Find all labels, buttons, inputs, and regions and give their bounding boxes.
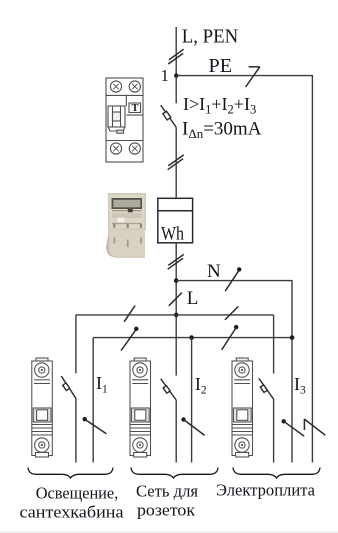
svg-text:сантехкабина: сантехкабина [20, 502, 125, 521]
label group 2 line 2 [137, 500, 196, 519]
double-slash mark below Wh [168, 254, 184, 269]
switch blade on N bus right [222, 325, 239, 350]
label group 1 line 1 [36, 483, 119, 502]
scan edge shadow bottom [0, 531, 338, 533]
wire L branch 2 lower [175, 400, 177, 463]
RCD device drawing U1 [106, 78, 143, 162]
switch blade on N wire [225, 267, 241, 291]
node 1 junction dot [174, 73, 178, 77]
svg-text:IΔn=30mA: IΔn=30mA [182, 118, 262, 141]
group brace 2 [131, 468, 218, 479]
electricity meter photo [106, 193, 146, 258]
svg-text:Электроплита: Электроплита [216, 481, 316, 500]
label IΔn=30mA [182, 118, 262, 141]
wire RCD to Wh meter [175, 127, 177, 198]
N distribution bus [93, 337, 292, 339]
label group 3 [216, 481, 316, 500]
L distribution bus [76, 314, 274, 316]
wire N branch right and down [176, 281, 292, 463]
energy meter symbol Wh [158, 198, 193, 243]
label Wh [161, 224, 184, 245]
svg-text:T: T [132, 103, 139, 114]
label 1 [161, 66, 170, 85]
group brace 3 [233, 468, 320, 479]
node label PE [209, 55, 233, 77]
double-slash 2-conductor mark on incoming wire [168, 49, 183, 64]
svg-text:L: L [187, 288, 199, 309]
svg-text:Освещение,: Освещение, [36, 483, 119, 502]
svg-text:PE: PE [209, 55, 233, 77]
wire L branch 3 lower [273, 399, 275, 462]
breaker device drawing 1 [32, 358, 53, 457]
svg-text:I2: I2 [195, 374, 207, 396]
PE conductor slash mark (top) [246, 67, 260, 87]
label I>I1+I2+I3 [183, 94, 256, 117]
wire N branch 1 [92, 338, 94, 463]
svg-text:розеток: розеток [137, 500, 196, 519]
wire L branch 1 lower [75, 398, 77, 462]
node dot N bus right end [290, 335, 295, 340]
breaker contact symbol QF4 [259, 378, 274, 399]
node N junction dot [174, 278, 179, 283]
node L junction dot [174, 313, 179, 318]
breaker contact symbol QF3 [161, 379, 177, 400]
wire L branch 1 upper [75, 315, 77, 373]
wire Wh to L node [175, 243, 177, 376]
label I2 [195, 374, 207, 396]
node dot N bus branch 2 [189, 335, 194, 340]
label group 2 line 1 [136, 482, 198, 501]
switch blade on N branch 2 [181, 417, 204, 435]
node label N [207, 261, 221, 282]
svg-text:L, PEN: L, PEN [182, 25, 239, 47]
label I3 [294, 374, 306, 396]
svg-text:Wh: Wh [161, 224, 184, 245]
wire N branch 2 [191, 338, 193, 463]
switch blade on N branch 3 [282, 419, 305, 436]
label I1 [96, 373, 108, 395]
svg-text:Сеть для: Сеть для [136, 482, 198, 501]
slash mark on L bus left [124, 306, 135, 322]
RCD test button label T [132, 103, 139, 114]
node label L, PEN [182, 25, 239, 47]
label group 1 line 2 [20, 502, 125, 521]
node label L [187, 288, 199, 309]
RCD breaker contact symbol QF1 [161, 105, 177, 127]
svg-text:N: N [207, 261, 221, 282]
wire PE branch (right and down) [176, 76, 312, 463]
wire L branch 3 upper [273, 315, 275, 374]
switch blade on N bus left [121, 327, 138, 351]
svg-text:1: 1 [161, 66, 170, 85]
svg-text:I>I1+I2+I3: I>I1+I2+I3 [183, 94, 256, 117]
double-slash mark below RCD [168, 155, 184, 170]
breaker device drawing 2 [130, 358, 151, 457]
breaker device drawing 3 [232, 358, 253, 457]
group brace 1 [28, 468, 113, 479]
switch blade on N branch 1 [83, 417, 107, 434]
svg-text:I3: I3 [294, 374, 306, 396]
slash mark on L bus right [225, 306, 238, 320]
breaker contact symbol QF2 [61, 376, 76, 398]
svg-text:I1: I1 [96, 373, 108, 395]
slash mark on L wire [169, 293, 182, 306]
PE conductor slash mark (bottom) [304, 419, 325, 435]
wire L,PEN incoming drop [175, 27, 177, 103]
